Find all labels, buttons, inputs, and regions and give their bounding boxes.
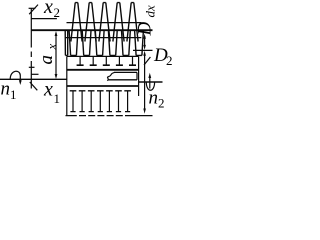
wire x2 reference line: [31, 18, 57, 20]
worm root line upper: [67, 22, 142, 24]
svg-text:1: 1: [54, 91, 61, 106]
wheel bottom line: [66, 115, 153, 117]
svg-text:a: a: [36, 55, 57, 65]
shaft stub right end: [136, 72, 138, 79]
wheel rim top line: [67, 55, 139, 57]
wire wheel axis right: [139, 81, 163, 83]
wheel bottom teeth bars: [70, 90, 131, 92]
slash mark x2: [29, 5, 38, 15]
wire wheel axis left: [0, 78, 67, 80]
svg-text:2: 2: [158, 96, 165, 111]
worm thread upper tooth tips: [75, 2, 134, 4]
shaft stub bottom / wheel axis right: [109, 79, 138, 81]
svg-text:n: n: [1, 79, 11, 100]
svg-text:n: n: [149, 88, 159, 109]
hub bottom line: [67, 85, 139, 87]
svg-text:dx: dx: [143, 5, 158, 18]
worm root line lower: [65, 37, 141, 39]
leader slash D2: [144, 57, 150, 65]
svg-text:2: 2: [54, 5, 61, 20]
svg-text:2: 2: [166, 53, 173, 68]
dimension D2 line: [144, 54, 146, 111]
wheel mesh teeth stems: [80, 56, 132, 65]
label a_x (rotated): [36, 44, 59, 65]
worm thread lower flanks: [65, 31, 143, 56]
rotation arrow n1: [10, 71, 20, 81]
svg-text:x: x: [43, 79, 53, 101]
tick x2 top: [29, 7, 36, 9]
wheel left edge: [66, 56, 68, 115]
worm thread lower tips: [65, 54, 141, 56]
wheel right edge: [138, 56, 140, 96]
label D_ax (rotated): [135, 5, 158, 37]
tick mid1: [29, 66, 35, 68]
node x2 extension line (left vertical): [30, 8, 32, 88]
svg-text:1: 1: [10, 87, 17, 102]
tick mid2: [31, 73, 38, 75]
dimension d_ax line: [144, 36, 146, 46]
shaft stub top: [114, 71, 137, 73]
extension line d_ax bottom: [133, 49, 153, 51]
worm thread upper flanks: [71, 3, 138, 42]
svg-text:x: x: [44, 44, 59, 51]
svg-text:D: D: [135, 22, 156, 37]
wheel mesh teeth bars: [77, 64, 136, 66]
dimension a_x line: [55, 34, 57, 77]
break line S on shaft: [107, 72, 114, 80]
wheel rim/hub top line: [67, 69, 139, 71]
wire worm axis: [31, 29, 152, 31]
wheel bottom teeth feet: [70, 111, 130, 113]
slash mark x1: [30, 82, 38, 90]
svg-text:x: x: [43, 0, 53, 18]
worm gear pair schematic: [0, 0, 177, 125]
rotation arrow n2: [146, 77, 154, 90]
wheel bottom teeth stems: [73, 91, 128, 112]
